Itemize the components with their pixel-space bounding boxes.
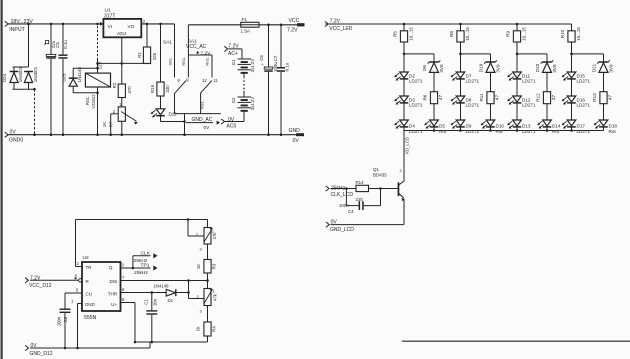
svg-text:BD435: BD435 <box>373 173 387 178</box>
switch pole SA1.1 fixed contact <box>167 24 174 78</box>
svg-text:3x1.2V: 3x1.2V <box>250 59 255 73</box>
wire D12-D13 <box>516 103 518 120</box>
svg-text:VI: VI <box>108 24 113 30</box>
junction cathode rail B3 <box>546 129 549 132</box>
relay RS1 V23042 coil <box>85 62 111 109</box>
wire wiper2 branch <box>189 298 204 300</box>
svg-text:D21: D21 <box>591 63 596 72</box>
wire VCC_AC crossbar <box>188 54 212 56</box>
node VCC_LED 7.2V <box>325 19 353 32</box>
svg-text:D14: D14 <box>552 123 561 128</box>
wire D1 to node <box>176 291 190 294</box>
svg-text:C1: C1 <box>143 299 148 305</box>
zener D6 3V9 <box>422 60 444 72</box>
wire common to ground <box>183 114 186 136</box>
wire ground rail <box>8 134 296 136</box>
svg-text:D13: D13 <box>522 123 531 128</box>
led D17 LD271 <box>562 120 591 134</box>
wire D2-D3 <box>403 79 405 96</box>
svg-text:LD271: LD271 <box>522 129 536 134</box>
switch contact right <box>205 55 212 78</box>
wire D3-D4 <box>403 103 405 120</box>
switch pin 12 <box>202 78 207 83</box>
svg-text:LD271: LD271 <box>522 79 536 84</box>
svg-text:1N4001: 1N4001 <box>18 66 23 82</box>
svg-text:AC0: AC0 <box>227 124 237 130</box>
svg-text:LD271: LD271 <box>409 129 423 134</box>
wire D25 bottom link <box>73 92 99 95</box>
svg-text:0V: 0V <box>293 138 300 144</box>
junction VO rail / R1 <box>146 23 149 26</box>
resistor R13 47 <box>592 92 612 104</box>
svg-text:C5: C5 <box>55 42 60 48</box>
svg-text:GND_D12: GND_D12 <box>30 351 53 357</box>
wire D7-D8 <box>460 79 462 96</box>
junction gnd C6 <box>267 133 270 136</box>
resistor R4 1k <box>196 322 217 336</box>
svg-text:47: 47 <box>495 95 500 101</box>
led D14 Rot <box>537 120 561 134</box>
resistor R9 10...15 <box>506 24 527 42</box>
switch pin 9 <box>186 77 189 82</box>
wire R14 to base <box>369 187 398 190</box>
svg-text:R15: R15 <box>150 84 155 93</box>
wire node vertical <box>188 281 190 299</box>
svg-text:3V9: 3V9 <box>496 64 501 73</box>
svg-text:V23042: V23042 <box>91 94 96 109</box>
wire diode branch down <box>28 24 30 67</box>
led D18 Rot <box>594 120 618 134</box>
junction rail col 3 <box>516 23 519 26</box>
svg-text:R10: R10 <box>560 29 565 38</box>
resistor R15 330 <box>150 24 170 96</box>
svg-text:SA1: SA1 <box>163 40 172 46</box>
pin 8 U+ wire <box>121 297 136 342</box>
svg-text:Rot: Rot <box>439 129 447 134</box>
svg-text:D24: D24 <box>2 73 7 82</box>
node VCC_D12 input <box>25 275 52 289</box>
led D13 LD271 <box>507 120 536 134</box>
svg-text:DIS: DIS <box>110 279 118 284</box>
svg-text:R13: R13 <box>592 93 597 102</box>
pin 4 R wire <box>30 273 82 282</box>
wire R6 to D5 <box>433 104 435 120</box>
pin 2 TR wire <box>76 261 83 267</box>
wire timing top rail <box>76 218 208 221</box>
svg-text:U1: U1 <box>105 8 111 14</box>
led D15 LD271 <box>562 72 591 84</box>
wire ground rail B <box>30 347 150 350</box>
svg-text:F1: F1 <box>242 17 248 22</box>
pin 1 GND wire <box>71 299 82 349</box>
switch contact mid <box>181 55 188 78</box>
wire R12 to D14 <box>546 104 548 120</box>
junction rail col 2 <box>459 23 462 26</box>
svg-text:1k: 1k <box>196 326 201 331</box>
node VCC_AC label <box>186 39 211 57</box>
wire zener branch g4 <box>572 54 604 62</box>
svg-text:100n: 100n <box>57 316 62 326</box>
wire LED supply rail <box>326 23 572 25</box>
junction cathode rail B1 <box>433 129 436 132</box>
svg-text:GND_AC: GND_AC <box>192 117 213 123</box>
led D3 LD271 <box>394 96 423 108</box>
svg-text:D4: D4 <box>409 123 415 128</box>
capacitor C6 100u <box>259 25 278 135</box>
led D4 LD271 <box>394 120 423 134</box>
junction C6 <box>267 24 270 27</box>
svg-text:D1: D1 <box>168 298 174 303</box>
capacitor C4 100n <box>339 189 381 214</box>
svg-text:3V9: 3V9 <box>552 64 557 73</box>
svg-text:Q1: Q1 <box>373 167 380 172</box>
junction cathode rail B2 <box>489 129 492 132</box>
svg-text:10...15: 10...15 <box>408 27 413 41</box>
svg-text:R5: R5 <box>393 31 398 37</box>
svg-text:R11: R11 <box>479 93 484 102</box>
svg-text:KD_LCD: KD_LCD <box>404 137 409 154</box>
wire D22 to switch ground <box>161 121 185 123</box>
svg-text:D17: D17 <box>577 123 586 128</box>
wire top rail to pot1 <box>207 220 209 228</box>
svg-text:R3: R3 <box>211 263 216 269</box>
svg-text:LD271: LD271 <box>466 129 480 134</box>
svg-text:CLK_LCD: CLK_LCD <box>331 192 354 198</box>
svg-text:ADJ: ADJ <box>117 31 127 37</box>
diode D24 1N4001 <box>2 66 23 89</box>
wire fuse feed <box>187 25 189 55</box>
resistor R10 10...15 <box>560 24 581 42</box>
svg-text:VCC_D12: VCC_D12 <box>29 283 52 289</box>
svg-text:D5: D5 <box>439 123 445 128</box>
svg-text:R2: R2 <box>112 82 117 88</box>
node GND_D12 <box>25 343 53 357</box>
pin 7 DIS wire <box>121 275 208 282</box>
resistor R5 10...15 <box>393 24 414 42</box>
svg-text:LD271: LD271 <box>577 79 591 84</box>
wire zener branch g2 <box>461 54 491 62</box>
wire D14 to rail <box>546 127 548 131</box>
svg-text:U2: U2 <box>83 255 89 261</box>
junction input rail / relay branch <box>96 23 99 26</box>
junction input rail / D23-D24 branch <box>27 23 30 26</box>
wire R2 to R7 <box>121 98 123 107</box>
diode D23 1N4001 <box>24 66 38 89</box>
svg-text:CLK: CLK <box>141 250 151 256</box>
node CLK 25kHz <box>133 250 158 268</box>
svg-text:LD271: LD271 <box>577 103 591 108</box>
svg-text:LD271: LD271 <box>577 129 591 134</box>
svg-text:100n: 100n <box>339 203 349 208</box>
wire D13 to rail <box>516 127 518 131</box>
junction gnd C5 <box>62 133 65 136</box>
svg-text:0.1u: 0.1u <box>284 62 289 71</box>
wire D16-D17 <box>571 103 573 120</box>
wire zener to R13 <box>603 72 605 91</box>
svg-text:AC+: AC+ <box>228 51 238 57</box>
wire R10 to leds <box>570 42 573 72</box>
svg-text:R4: R4 <box>211 326 216 332</box>
wire switch common crossbar <box>175 113 221 115</box>
resistor R2 470 <box>112 82 132 97</box>
diode D25 1N4148 <box>62 67 82 93</box>
svg-text:47: 47 <box>438 95 443 101</box>
wire relay top node <box>96 60 99 74</box>
svg-text:11: 11 <box>213 78 218 83</box>
svg-text:47k: 47k <box>212 232 217 240</box>
svg-text:R9: R9 <box>506 31 511 37</box>
svg-text:10n: 10n <box>153 298 158 306</box>
svg-text:RS1.: RS1. <box>85 96 90 105</box>
wire D9 to rail <box>460 127 462 131</box>
svg-text:220: 220 <box>152 52 157 60</box>
wire relay to ground <box>96 87 99 136</box>
svg-text:R1: R1 <box>137 52 142 58</box>
wire pot2 to R4 <box>207 306 209 323</box>
svg-text:Rot: Rot <box>609 129 617 134</box>
node AC0 0V <box>221 117 244 130</box>
trimmer R7 1K <box>102 102 138 128</box>
wire R11 to D10 <box>490 104 492 120</box>
junction input rail / C5 <box>62 23 65 26</box>
wire rail B link <box>149 342 151 348</box>
svg-text:INPUT: INPUT <box>9 27 25 33</box>
svg-text:1N4148: 1N4148 <box>77 67 82 83</box>
svg-text:SA1.: SA1. <box>167 57 172 66</box>
svg-text:3V9: 3V9 <box>609 64 614 73</box>
svg-text:D20: D20 <box>535 63 540 72</box>
svg-text:317T: 317T <box>104 14 115 20</box>
svg-text:47k: 47k <box>213 293 218 301</box>
wire G2 bottom <box>243 112 245 122</box>
svg-text:1K: 1K <box>102 122 107 127</box>
wire R7 wiper to ground <box>109 114 118 136</box>
svg-text:Rot: Rot <box>496 129 504 134</box>
svg-text:D6: D6 <box>422 65 427 71</box>
svg-text:C4: C4 <box>348 209 354 214</box>
svg-text:R14: R14 <box>356 180 365 185</box>
svg-text:555N: 555N <box>84 315 97 321</box>
svg-text:10...15: 10...15 <box>521 27 526 41</box>
resistor R6 47 <box>423 92 443 104</box>
svg-text:GND_LCD: GND_LCD <box>330 227 354 233</box>
svg-text:330: 330 <box>165 85 170 93</box>
svg-text:7.2V: 7.2V <box>201 50 212 56</box>
wire ADJ-R1 link <box>98 62 148 65</box>
svg-text:D18: D18 <box>609 123 618 128</box>
page border left edge <box>1 0 3 359</box>
capacitor C5 0.1u <box>55 24 68 135</box>
svg-text:D9: D9 <box>466 123 472 128</box>
capacitor C2 100n <box>57 293 71 348</box>
led D5 Rot <box>424 120 447 134</box>
wire VO rail <box>141 23 174 25</box>
fuse F1 1.5A <box>188 17 259 34</box>
capacitor C1 10n <box>143 293 157 343</box>
resistor R14 220 <box>356 180 369 202</box>
junction cathode rail A2 <box>459 129 462 132</box>
wire D25 top link <box>73 67 97 69</box>
wire LED cathode rail <box>404 130 604 132</box>
svg-text:CU: CU <box>86 291 93 296</box>
switch blade SA1.1 <box>175 81 186 93</box>
svg-text:LD271: LD271 <box>522 103 536 108</box>
svg-text:C7: C7 <box>273 55 278 61</box>
transistor Q1 BD435 <box>373 167 405 201</box>
trimmer P2 47k <box>197 289 218 314</box>
svg-text:10...15: 10...15 <box>465 27 470 41</box>
wire R7 bottom to ground <box>121 121 124 136</box>
wire clk to R14 <box>331 187 357 190</box>
led D10 Rot <box>481 120 505 134</box>
wire dashed to ground <box>34 89 36 135</box>
svg-text:25kHz: 25kHz <box>134 270 148 276</box>
wire emitter down <box>403 199 405 225</box>
wire D18 to rail <box>603 127 605 131</box>
svg-text:GND0: GND0 <box>9 138 23 144</box>
svg-text:+: + <box>261 62 264 67</box>
pin 5 CU wire <box>65 288 82 294</box>
pin 3 Q wire <box>121 263 135 270</box>
wire KD_LCD <box>404 131 409 182</box>
diode D1 1N4148 <box>154 284 176 303</box>
svg-text:3x1.2V: 3x1.2V <box>250 97 255 111</box>
svg-text:RS1.: RS1. <box>181 57 186 66</box>
wire R4 to rail <box>207 336 209 342</box>
node INPUT 18V...23V label <box>5 19 34 33</box>
svg-text:1K: 1K <box>196 264 201 269</box>
capacitor C7 0.1u <box>273 25 289 135</box>
switch pin 8 <box>178 78 181 83</box>
svg-text:0V: 0V <box>228 117 235 123</box>
wire D10 to rail <box>490 127 492 131</box>
wire fuse to VCC <box>259 24 297 26</box>
svg-text:G2: G2 <box>231 97 236 103</box>
led D16 LD271 <box>562 96 591 108</box>
timer U2 555N box <box>82 255 121 321</box>
led D12 LD271 <box>507 96 536 108</box>
junction gnd C3 <box>50 133 53 136</box>
zener D20 3V9 <box>535 60 557 72</box>
svg-text:TP1: TP1 <box>141 263 150 269</box>
svg-text:LD271: LD271 <box>466 103 480 108</box>
svg-text:D19: D19 <box>478 63 483 72</box>
svg-text:U+: U+ <box>111 302 117 307</box>
svg-text:0V: 0V <box>204 125 211 131</box>
svg-text:D25: D25 <box>62 73 67 82</box>
svg-text:VO: VO <box>128 24 135 30</box>
node GND_LCD <box>326 220 404 234</box>
wire input rail <box>8 23 103 25</box>
switch blade SA1.2 <box>201 81 212 93</box>
wire D5 to rail <box>433 127 435 131</box>
svg-text:1N4148: 1N4148 <box>154 284 170 289</box>
junction gnd C7 <box>280 133 283 136</box>
wire R5 to leds <box>403 42 406 72</box>
led D9 LD271 <box>451 120 480 134</box>
led D22 <box>151 96 178 122</box>
node VCC 7.2V <box>287 18 305 34</box>
junction cathode rail A3 <box>516 129 519 132</box>
wire wiper1 branch <box>188 220 204 237</box>
svg-text:LD271: LD271 <box>409 103 423 108</box>
wire G1 to G2 dots <box>243 74 245 97</box>
page border bottom-right <box>402 340 630 342</box>
svg-text:1.5A: 1.5A <box>241 29 251 34</box>
svg-text:TR: TR <box>86 265 93 270</box>
led D2 LD271 <box>394 72 423 84</box>
junction input rail / C3 <box>50 23 53 26</box>
svg-text:LD271: LD271 <box>466 79 480 84</box>
junction rail col 1 <box>403 23 406 26</box>
junction cathode rail A4 <box>570 129 573 132</box>
node AC+ 7.2V <box>224 44 242 59</box>
svg-text:R6: R6 <box>423 94 428 100</box>
wire ADJ down <box>121 37 123 84</box>
node GND 0V left <box>5 130 24 144</box>
resistor R3 1K <box>196 260 216 274</box>
wire zener to R12 <box>546 72 548 91</box>
junction gnd D-branch <box>33 133 36 136</box>
wire R8 to leds <box>459 42 462 72</box>
svg-text:C6: C6 <box>259 55 264 61</box>
wire D15-D16 <box>571 79 573 96</box>
svg-text:12: 12 <box>202 78 207 83</box>
svg-text:R12: R12 <box>536 93 541 102</box>
wire diode top mini-rail <box>13 66 29 68</box>
node GND 0V right <box>289 128 305 144</box>
svg-text:RS1.: RS1. <box>200 100 205 109</box>
node GND_AC tap <box>186 117 220 131</box>
switch pin 11 <box>213 78 218 83</box>
junction VO rail / R15 <box>159 23 162 26</box>
wire dashed relay drive <box>97 26 99 60</box>
svg-text:47: 47 <box>551 95 556 101</box>
wire D11-D12 <box>516 79 518 96</box>
svg-text:GND: GND <box>289 128 301 134</box>
svg-text:C2: C2 <box>63 316 68 322</box>
node CLK_LCD input <box>326 185 354 198</box>
svg-text:Rot: Rot <box>552 129 560 134</box>
svg-text:LD271: LD271 <box>409 79 423 84</box>
svg-text:1N4001: 1N4001 <box>33 66 38 82</box>
wire zener branch g1 <box>404 54 434 62</box>
svg-text:VCC_AC: VCC_AC <box>186 44 207 50</box>
svg-text:R8: R8 <box>449 31 454 37</box>
wire pot1 to R3 <box>207 244 209 260</box>
wire TR up <box>75 220 77 267</box>
wire R3 down <box>206 273 209 289</box>
pin 6 THR wire <box>121 287 167 294</box>
svg-text:G1: G1 <box>231 59 236 65</box>
wire R9 to leds <box>516 42 519 72</box>
led D11 LD271 <box>507 72 536 84</box>
svg-text:RS1.: RS1. <box>205 57 210 66</box>
switch SA1 label <box>163 40 172 46</box>
wire blade1 common <box>174 93 176 114</box>
resistor R8 10...15 <box>449 24 470 42</box>
svg-text:THR: THR <box>108 291 118 296</box>
svg-text:7.2V: 7.2V <box>287 28 298 34</box>
resistor R11 47 <box>479 92 499 104</box>
wire zener to R11 <box>490 72 492 91</box>
resistor R12 47 <box>536 92 556 104</box>
svg-text:10...15: 10...15 <box>576 27 581 41</box>
trimmer P1 47k <box>196 228 217 252</box>
wire zener to R6 <box>433 72 435 91</box>
regulator U1 317T <box>100 8 146 38</box>
svg-text:3V9: 3V9 <box>439 64 444 73</box>
